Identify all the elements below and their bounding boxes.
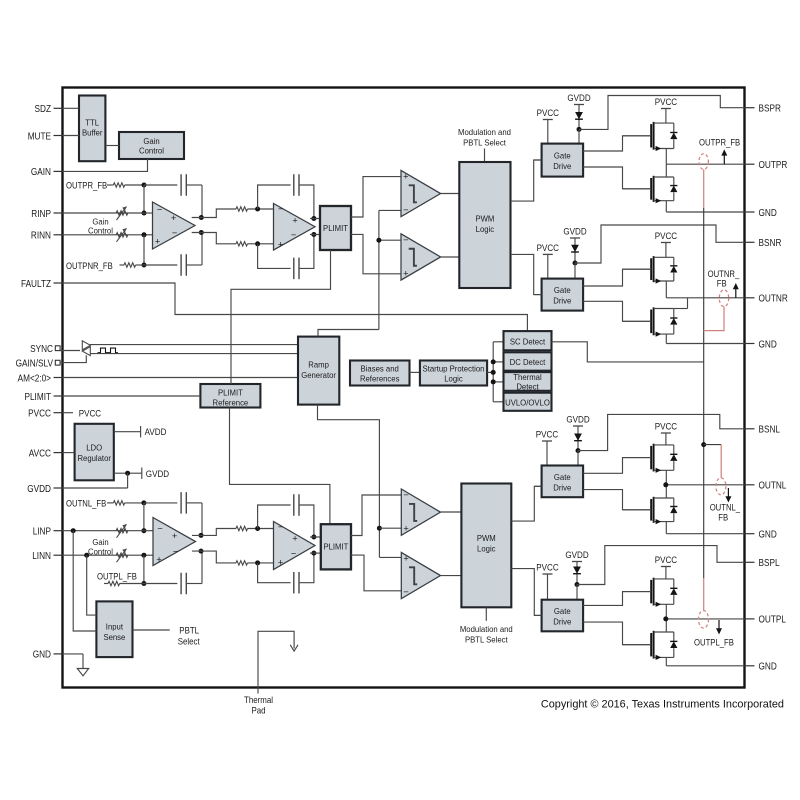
pin GAIN [31,167,63,178]
label Modulation and PBTL Select (top) [458,127,511,148]
comparator L2 [401,552,440,598]
svg-text:+: + [292,216,297,226]
wire AVCC to LDO [63,452,75,454]
svg-text:Ramp: Ramp [308,360,329,370]
arrow OUTPR_FB [721,149,727,164]
pin OUTPL (right) [744,615,786,626]
Ramp Generator block [298,337,339,405]
capacitor L2 bottom feedback [258,553,314,593]
svg-text:UVLO/OVLO: UVLO/OVLO [505,397,550,407]
pin GVDD [27,484,62,495]
red sense wire OUTPL [703,578,705,610]
wire AM<2:0> to Ramp Generator [63,377,299,379]
svg-text:Control: Control [88,226,113,236]
svg-text:PVCC: PVCC [537,243,560,254]
label OUTPNR_FB [66,261,113,271]
svg-text:GND: GND [759,339,777,350]
svg-text:OUTPR_FB: OUTPR_FB [699,138,740,148]
svg-text:−: − [157,204,162,214]
wire ramp to comparators R [379,210,401,329]
svg-text:LDO: LDO [86,442,102,452]
wire gate drive to high FET S2 [583,269,651,286]
svg-text:Drive: Drive [553,161,571,171]
wire ramp to comparator L1 [379,527,401,529]
wire bus to DC Detect [493,361,503,363]
svg-text:+: + [403,553,408,563]
svg-text:PVCC: PVCC [537,108,560,119]
wire GVDD to gate drive S1 [578,129,580,143]
capacitor R2 top feedback [258,174,314,218]
TTL Buffer block [79,96,105,162]
wire L2 outputs to PLIMIT L [310,537,321,553]
diode GVDD S4 [573,567,581,574]
svg-text:FAULTZ: FAULTZ [21,279,51,290]
PWM Logic block (left) [461,484,511,608]
svg-text:Reference: Reference [213,397,249,407]
svg-text:Regulator: Regulator [77,453,111,463]
capacitor L2 top feedback [258,494,314,537]
label Gain Control (R pots) [88,216,113,235]
high-side MOSFET S4 [623,578,677,607]
pin GND (right) [744,339,776,350]
wire high source to node S1 [665,149,667,165]
wire L1 out- to L2 [192,551,274,565]
svg-text:Select: Select [178,637,200,647]
wire PLIMIT Reference to PLIMIT R [231,250,331,384]
arrow OUTNL_FB [725,488,731,503]
svg-text:GVDD: GVDD [567,93,590,104]
svg-text:Drive: Drive [553,482,571,492]
wire PWM L to Gate Drive 4 [511,569,541,616]
svg-text:FB: FB [718,512,728,522]
SC Detect block [504,331,552,350]
svg-text:Drive: Drive [553,296,571,306]
wire gate drive to high FET S1 [583,136,651,151]
svg-text:OUTPL_FB: OUTPL_FB [694,637,734,647]
LDO Regulator block [75,424,114,481]
wire low drain to node S1 [665,164,667,177]
svg-text:OUTNL: OUTNL [759,481,787,492]
pin OUTNL (right) [744,481,786,492]
node OUTPR_FB junction [142,183,147,188]
pin RINP [31,209,62,220]
PLIMIT Reference block [200,384,260,408]
wire bus to UVLO [493,401,503,403]
svg-text:Sense: Sense [103,632,125,642]
svg-text:−: − [278,522,283,532]
svg-text:PVCC: PVCC [655,555,678,566]
label OUTPR_FB (output) [699,138,740,148]
resistor OUTPNR_FB [120,263,145,267]
svg-text:AVDD: AVDD [145,427,167,438]
svg-text:−: − [403,490,408,500]
diode GVDD S3 [574,434,582,441]
wire GND line S3 [666,533,744,535]
wire low source to GND S4 [665,657,667,665]
pin GND (right) [744,530,776,541]
svg-text:−: − [403,587,408,597]
high-side MOSFET S1 [623,122,677,151]
node bus DC [491,359,496,364]
node R1 output plus [199,215,204,220]
pin BSPL (right) [744,558,780,569]
wire low drain to node S3 [665,485,667,498]
wire RINP [63,212,153,214]
red sense wire OUTNL [720,445,722,478]
capacitor L1 bottom feedback [144,551,202,594]
wire GVDD to gate drive S2 [574,263,576,279]
wire PWM R to Gate Drive 1 [511,160,542,201]
svg-text:Logic: Logic [477,544,496,554]
wire L1 out+ to L2 [192,526,274,535]
svg-text:PLIMIT: PLIMIT [25,392,52,403]
svg-text:Pad: Pad [251,706,265,716]
Gain Control block [119,132,184,159]
wire GVDD to gate drive S4 [576,585,578,600]
wire comparator L1 out [441,511,462,513]
op-amp L1 (first stage left) [153,518,196,566]
capacitor L1 top feedback [144,492,202,535]
wire LINP to Input Sense [73,531,96,631]
svg-text:GVDD: GVDD [27,484,51,495]
Gate Drive block S1 [542,144,584,177]
svg-text:PWM: PWM [475,214,494,224]
label OUTPL_FB [97,572,137,582]
PLIMIT block (right channel) [320,206,351,250]
comparator R2 [401,234,441,280]
wire GVDD to gate drive S3 [577,451,579,466]
svg-text:−: − [278,204,283,214]
svg-text:GND: GND [759,530,777,541]
low-side MOSFET S3 [623,497,677,524]
svg-text:TTL: TTL [85,117,99,127]
wire LDO AVDD out [114,426,167,438]
wire GND line S2 [666,343,744,345]
svg-text:+: + [155,237,160,247]
PVCC supply FET S1 [655,97,678,123]
wire SDZ to TTL Buffer [63,107,80,109]
pin AVCC [29,448,63,459]
node L2 non-inverting input [255,560,260,565]
svg-text:GND: GND [33,650,51,661]
node OUT junction S4 [663,616,668,621]
svg-text:PBTL Select: PBTL Select [463,137,506,147]
wire SYNC buffers to Ramp Generator [90,345,298,354]
svg-text:Gain: Gain [143,136,159,146]
wire LDO GVDD out [114,468,169,480]
node R1 non-inverting input [142,232,147,237]
arrow OUTPL_FB [716,620,722,635]
wire PWM R to Gate Drive 2 [511,254,543,294]
svg-text:LINP: LINP [33,527,52,538]
pin GND [33,650,63,661]
svg-text:BSPR: BSPR [759,104,781,115]
svg-text:+: + [278,558,283,568]
wire R1 out+ to R2 [192,207,274,218]
low-side MOSFET S1 [623,176,677,204]
svg-text:Biases and: Biases and [361,363,399,373]
wire gate drive to low FET S1 [583,167,651,189]
svg-text:Thermal: Thermal [244,695,273,705]
wire bootstrap S2 [575,225,744,263]
GVDD supply S4 [565,550,588,584]
wire PBTL Select [133,629,170,631]
wire low drain jog S2 [687,298,689,309]
label OUTPL_FB (output) [694,637,734,647]
svg-text:Startup Protection: Startup Protection [423,363,485,373]
PVCC supply gate S4 [536,563,559,600]
svg-text:OUTNR: OUTNR [759,294,788,305]
wire PWM input S1 [534,159,541,161]
resistor OUTPR_FB [107,183,144,187]
wire PWM input S2 [534,294,541,296]
pin PLIMIT [25,392,63,403]
wire Thermal Pad [258,631,294,693]
node L2 output minus [311,551,316,556]
detect bus vertical [492,342,494,402]
wire ramp to comparator L2 [379,556,401,558]
Gate Drive block S2 [542,279,584,311]
wire SYNC pad [60,350,80,352]
svg-text:BSNL: BSNL [759,425,781,436]
svg-text:Modulation and: Modulation and [458,127,511,137]
wire fb to L1 inverting [143,503,145,531]
wire PWM input S4 [534,614,541,616]
wire bootstrap S3 [578,414,744,450]
svg-text:PVCC: PVCC [655,231,678,242]
svg-text:AM<2:0>: AM<2:0> [18,373,52,384]
wire R2 outputs to PLIMIT [310,219,320,235]
svg-text:Detect: Detect [516,381,539,391]
svg-text:−: − [403,235,408,245]
squarewave glyph [98,348,119,353]
wire SC Detect to sense bus [552,342,704,362]
svg-text:PVCC: PVCC [79,408,102,419]
node R1 output minus [199,230,204,235]
pin PVCC [28,409,62,420]
wire PLIMIT pin to PLIMIT Reference [63,395,201,397]
PLIMIT block (left channel) [321,524,351,569]
wire GAIN/SLV to buffer [60,355,86,362]
svg-text:Modulation and: Modulation and [460,624,513,634]
wire gate drive to low FET S2 [583,301,651,321]
pin BSNR (right) [744,238,781,249]
svg-text:Control: Control [139,146,164,156]
pin OUTPR (right) [744,160,787,171]
node OUT junction S3 [663,482,668,487]
Gate Drive block S4 [542,600,584,632]
svg-text:GVDD: GVDD [563,227,586,238]
IC boundary frame [63,88,745,688]
comparator L1 [401,489,440,535]
Gate Drive block S3 [542,466,584,498]
pin RINN [31,231,63,242]
label PBTL Select [178,626,200,647]
svg-text:GVDD: GVDD [146,469,169,480]
wire PWM input S3 [534,485,541,487]
capacitor R2 bottom feedback [258,235,314,280]
wire comparator L2 out [441,575,462,577]
wire bus to Thermal Detect [493,381,503,383]
svg-text:+: + [403,171,408,181]
DC Detect block [504,352,552,370]
red sense wire OUTPR [703,170,705,209]
current sense ellipse OUTNR [719,290,728,307]
svg-text:−: − [172,228,177,238]
svg-text:GVDD: GVDD [566,415,589,426]
low-side MOSFET S4 [623,631,677,660]
Thermal Detect block [504,372,552,391]
svg-text:PLIMIT: PLIMIT [218,387,244,397]
wire GND line S4 [666,665,744,667]
svg-text:AVCC: AVCC [29,448,51,459]
wire Startup to detect bus [487,371,493,373]
svg-text:+: + [171,213,176,223]
wire gate drive to high FET S4 [583,592,651,606]
svg-text:RINP: RINP [31,209,51,220]
wire Biases to Startup [410,371,420,373]
svg-text:OUTPL_FB: OUTPL_FB [97,572,137,582]
svg-text:Logic: Logic [476,224,495,234]
node LINN branch [84,553,89,558]
diode GVDD S1 [575,112,583,119]
wire GND line S1 [666,211,744,213]
node GVDD S4 [575,582,580,587]
wire PWM L to Gate Drive 3 [511,486,541,521]
pin SDZ [35,104,63,115]
svg-text:GAIN/SLV: GAIN/SLV [16,359,54,370]
svg-text:−: − [157,524,162,534]
Input Sense block [96,601,132,657]
op-amp R2 (second stage right) [274,204,316,251]
wire PLIMIT to comparator R1 [351,177,401,217]
GVDD supply S1 [567,93,590,129]
node R2 output plus [311,216,316,221]
svg-text:+: + [403,268,408,278]
svg-text:+: + [278,240,283,250]
node GVDD S2 [573,261,578,266]
sense bus vertical [703,208,705,578]
svg-text:Gate: Gate [554,472,571,482]
svg-text:Copyright © 2016, Texas Instru: Copyright © 2016, Texas Instruments Inco… [541,698,784,710]
GVDD supply S2 [563,227,586,263]
wire OUT line S2 [666,297,744,299]
wire low source to GND S2 [665,334,667,343]
svg-text:SDZ: SDZ [35,104,52,115]
svg-text:BSNR: BSNR [759,238,782,249]
current sense ellipse OUTNL [716,478,726,495]
wire FAULTZ to SC Detect [63,283,528,331]
wire PLIMIT Reference to PLIMIT L [230,407,330,524]
node OUTPNR_FB junction [142,263,147,268]
pin SYNC [30,344,60,355]
red sense wire OUTNR [704,307,724,331]
label OUTNL_FB [66,498,106,508]
pin FAULTZ [21,279,63,290]
potentiometer RINP gain [116,207,128,221]
wire R1 out- to R2 [192,233,274,247]
wire PLIMIT L to comparator L2 [351,555,401,591]
node sense bus OUTNL [701,442,706,447]
node bus startup [491,370,496,375]
wire high source to node S2 [665,281,667,298]
node GVDD S3 [576,448,581,453]
wire gate drive to high FET S3 [583,458,651,474]
svg-text:PBTL: PBTL [179,626,199,636]
high-side MOSFET S2 [623,256,677,284]
wire PLIMIT to comparator R2 [351,234,401,273]
capacitor R1 top feedback [144,174,202,217]
node R2 non-inverting input [255,241,260,246]
PVCC supply FET S3 [655,422,678,445]
node R2 inverting input [255,207,260,212]
capacitor R1 bottom feedback [144,233,202,276]
op-amp L2 (second stage left) [274,522,316,570]
svg-text:DC Detect: DC Detect [510,357,546,367]
wire LINP [63,530,154,532]
svg-text:+: + [156,555,161,565]
resistor OUTNL_FB [107,501,144,505]
wire sense tap OUTNL [704,444,722,446]
comparator R1 [401,170,441,216]
svg-text:GND: GND [759,662,777,673]
wire OUT line S4 [666,618,744,620]
UVLO/OVLO block [504,393,552,411]
current sense ellipse OUTPL [699,611,709,629]
svg-text:OUTNL_FB: OUTNL_FB [66,498,106,508]
wire GND pin left [63,654,84,669]
node LINP branch [71,528,76,533]
pin MUTE [28,131,63,142]
svg-text:PVCC: PVCC [655,97,678,108]
node L2 inverting input [255,526,260,531]
svg-text:+: + [403,524,408,534]
pin BSNL (right) [744,425,780,436]
wire low drain to node S4 [665,619,667,632]
pin GND (right) [744,662,776,673]
wire gate drive to low FET S4 [583,622,651,645]
thermal pad arrow [290,645,298,651]
label OUTPR_FB [66,181,107,191]
wire comparator R2 out [441,256,460,258]
node L1 output minus [199,549,204,554]
svg-text:−: − [403,205,408,215]
buffer SYNC in [82,347,90,356]
svg-text:PLIMIT: PLIMIT [323,223,349,233]
node L1 non-inverting input [141,553,146,558]
wire modulation label stub (top) [484,149,486,163]
wire bus to SC Detect [493,341,503,343]
wire feedback to inverting input [143,185,145,213]
svg-text:PVCC: PVCC [655,422,678,433]
wire TTL Buffer to Gain Control [105,145,119,147]
label OUTNR_FB (output) [708,269,740,288]
wire low drain stub extension S2 [674,308,688,310]
svg-text:Buffer: Buffer [82,128,103,138]
svg-text:RINN: RINN [31,231,51,242]
wire GVDD pin [63,473,128,488]
wire bootstrap S1 [579,96,744,130]
node L2 output plus [311,535,316,540]
label Modulation and PBTL Select (bottom) [460,624,513,645]
svg-text:GVDD: GVDD [565,550,588,561]
node R2 output minus [311,232,316,237]
wire PLIMIT L to comparator L1 [351,495,401,536]
wire high source to node S3 [665,470,667,485]
svg-text:OUTPL: OUTPL [759,615,787,626]
svg-text:PLIMIT: PLIMIT [323,542,349,552]
wire PVCC pin internal [63,408,102,419]
